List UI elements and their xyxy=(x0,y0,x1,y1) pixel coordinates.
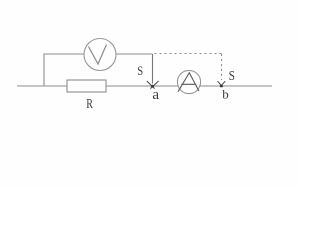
switch S arrow at node a xyxy=(147,81,159,89)
ammeter A symbol xyxy=(178,73,199,92)
label S (left switch) xyxy=(137,63,143,78)
arrow at node b xyxy=(218,81,226,87)
svg-text:S: S xyxy=(137,63,143,78)
wire: main horizontal line xyxy=(17,85,272,87)
node b junction dot xyxy=(220,85,223,88)
dashed wire: vertical to b xyxy=(221,54,223,80)
voltmeter V symbol xyxy=(89,45,107,65)
svg-text:b: b xyxy=(222,87,229,102)
label R xyxy=(86,96,93,112)
wire: voltmeter top horizontal xyxy=(44,53,153,55)
voltmeter V1 circle xyxy=(84,39,116,71)
svg-text:a: a xyxy=(152,87,159,103)
label S (right switch) xyxy=(229,68,235,83)
resistor R xyxy=(67,80,106,92)
svg-text:S: S xyxy=(229,68,235,83)
wire: switch arm vertical xyxy=(152,54,154,84)
dashed wire: top horizontal xyxy=(155,53,223,55)
node a junction dot xyxy=(151,85,154,88)
wire: left vertical branch xyxy=(43,54,45,87)
svg-text:R: R xyxy=(86,96,93,112)
ammeter A1 circle xyxy=(177,70,200,93)
